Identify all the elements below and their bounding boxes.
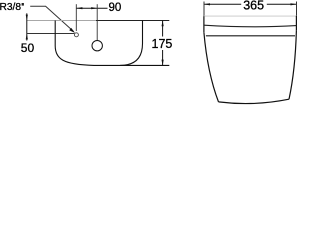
dim 175 arrow down [162,60,164,66]
dim 365 arrow left [204,3,210,5]
top surface line (left view) [27,20,96,22]
svg-text:175: 175 [152,37,173,51]
lid bottom edge [204,25,296,27]
dim 365 arrow right [291,3,297,5]
dim 90 arrow left [76,7,82,9]
svg-text:90: 90 [109,2,122,14]
365 extension line left [203,2,205,17]
leader wire from R3/8" to inlet [30,6,73,31]
inlet hole circle [74,33,78,37]
dim 50 extension line to inlet [27,33,75,35]
svg-text:365: 365 [243,0,264,13]
lid right side [295,16,297,30]
90 extension line right / centerline [96,4,98,40]
tank right side [289,30,296,99]
lid top edge [204,15,297,17]
365 extension line right [296,2,298,16]
tank rim line [206,35,295,37]
dim 175 arrow up [162,21,164,27]
dim 50 arrow down [26,15,28,21]
dim 90 arrow right [91,7,97,9]
dimension 175 vertical line [162,21,164,66]
dimension 90 line [76,7,107,9]
dimension 50 vertical line [26,13,28,40]
leader arrowhead [69,28,75,33]
dimension 365 line [204,3,297,5]
center hole circle [92,41,102,51]
tank plan outline left side and bottom [55,21,169,66]
tank bottom edge [219,99,290,103]
lid left side [203,16,205,32]
tank left side [204,32,219,102]
dim 50 arrow up [26,34,28,40]
svg-text:R3/8: R3/8 [0,2,21,13]
tank plan outline right side [120,20,143,65]
90 extension line left [75,4,77,31]
svg-text:50: 50 [21,41,35,55]
